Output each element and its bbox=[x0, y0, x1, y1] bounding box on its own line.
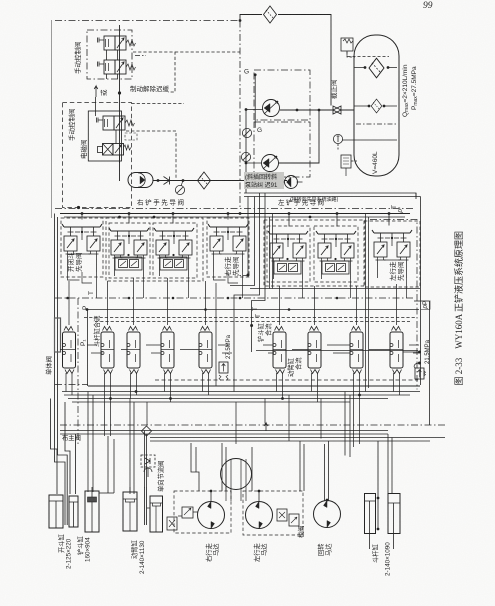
valve V2: manual pilot valve lower bbox=[98, 60, 136, 74]
relief valve RB bbox=[414, 363, 425, 379]
wire: dash-dot border right with corner bbox=[370, 220, 417, 390]
wire: dashed pilot lines to spools bbox=[84, 317, 415, 319]
wire: pump2 suction riser bbox=[278, 110, 319, 163]
pump group box 2 bbox=[254, 122, 310, 177]
node: dot bbox=[86, 308, 89, 311]
wire: right feed line through spools bbox=[256, 350, 418, 352]
wire: dashed link from V3 to right bbox=[126, 131, 176, 178]
node: motor feed dots bbox=[210, 490, 329, 502]
pilot pump P3 bbox=[285, 176, 298, 189]
wire: T-collect line right half bbox=[250, 288, 420, 290]
wire: level gauge line bbox=[343, 139, 398, 141]
label (shaded) 补偿回转系统 bbox=[244, 172, 284, 189]
valve V1: manual pilot valve upper bbox=[98, 36, 136, 50]
wire: feeders to 铲斗缸 bbox=[88, 392, 114, 494]
manual/solenoid valve group box inner bbox=[88, 111, 121, 161]
wire: pilot supply bus upper bbox=[60, 213, 410, 215]
wire: feed stubs into spools bbox=[60, 345, 419, 353]
wire: verticals left of C5 bbox=[270, 214, 273, 289]
wire: P corner stub bbox=[414, 300, 430, 302]
filter F3 in-tank upper bbox=[369, 58, 384, 78]
spool valve S6 bbox=[273, 327, 286, 374]
wire: drops from bus to clusters bbox=[82, 214, 389, 227]
wire: S9 to right riser bbox=[403, 351, 420, 353]
wire: vertical dash-dot x=240 bbox=[239, 21, 241, 209]
wire: C4 leg long drop bbox=[215, 283, 217, 386]
filter F1 on pilot line bbox=[198, 172, 211, 189]
boxed reducing pair under C6 bbox=[322, 258, 349, 274]
wire: dashed pilot sense line from V1 bbox=[133, 52, 175, 92]
wire: lower solid buses bbox=[62, 392, 420, 403]
travel motor left 左行走马达 bbox=[246, 502, 273, 529]
boxed reducing pair under C3 bbox=[160, 254, 187, 270]
valve V4: solenoid valve body bbox=[98, 144, 131, 156]
wire: accumulator to filter line bbox=[153, 180, 287, 182]
wire: pilot trunk vertical bbox=[119, 25, 121, 181]
wire: spool top risers bbox=[69, 278, 397, 325]
check-throttle valve 单向节流阀 bbox=[141, 455, 155, 477]
spool valve S7 bbox=[308, 327, 321, 374]
wire: cluster leg extensions to lower bus bbox=[97, 272, 407, 298]
valve V3: manual control valve bbox=[97, 116, 135, 130]
cylinder 铲斗缸 bbox=[85, 487, 114, 532]
outer dashed box (手动控制阀组) bbox=[63, 103, 132, 208]
node: junction dots on pilot line bbox=[157, 179, 160, 182]
wire: pilot supply bus lower bbox=[64, 216, 405, 218]
pilot valve cluster C3 bbox=[153, 223, 197, 278]
wire: V1 to V2 connections bbox=[107, 50, 118, 79]
wire: feeders to 斗杆缸 bbox=[388, 434, 392, 493]
pressure gauge G1 bbox=[181, 181, 183, 187]
boxed reducing pair under C2 bbox=[115, 254, 142, 270]
spool valve S3 bbox=[127, 327, 140, 374]
node: dot on trunk bbox=[118, 91, 121, 94]
wire: solid return bus y=309.5 bbox=[87, 309, 419, 311]
wire: top line to suction filter bbox=[240, 15, 262, 21]
wire: left edge double vertical bbox=[55, 214, 68, 488]
node: dots below pilot clusters bbox=[66, 297, 338, 311]
pilot valve cluster C2 bbox=[109, 223, 150, 278]
pump group box 1 bbox=[254, 70, 310, 120]
pilot valve cluster C7 (左行走先导阀) bbox=[364, 221, 420, 287]
filter F2 top suction bbox=[264, 6, 277, 23]
shuttle valve block right 梭阀 bbox=[277, 509, 299, 526]
wire: dash-dot elbow to C4 bbox=[237, 275, 248, 277]
filter F4 in-tank lower bbox=[371, 99, 382, 113]
wire: right side verticals bbox=[421, 197, 430, 426]
wire: pump suction header bbox=[280, 109, 354, 111]
gauge G2 bbox=[242, 128, 251, 137]
boxed reducing pair under C5 bbox=[274, 258, 301, 274]
spool valve S2 bbox=[101, 327, 114, 374]
wire: pilot line into V3 bbox=[95, 97, 97, 116]
wire: verticals between C6 and C7 bbox=[366, 214, 369, 392]
wire: return line through filter F3 bbox=[354, 67, 397, 69]
cylinder group 动臂缸 bbox=[123, 487, 163, 532]
wire: left staircase feeders to 开斗缸 bbox=[51, 399, 76, 495]
wire: hooks below clusters C1 C4 bbox=[68, 272, 239, 283]
node: elbow dots bbox=[247, 274, 254, 328]
swing motor 回转马达 bbox=[314, 501, 341, 528]
wire: long transfer lines bbox=[60, 431, 445, 442]
hydraulic tank (V=460L) bbox=[354, 35, 399, 176]
wire: bottom header double line bbox=[244, 193, 421, 197]
spool valve S4 bbox=[161, 327, 174, 374]
wire: pilot header dash-dot bbox=[55, 208, 413, 210]
pilot valve group box A (right shovel) bbox=[106, 218, 203, 281]
pilot valve cluster C1 (开闭斗先导阀) bbox=[61, 218, 103, 277]
valve 单体阀 bbox=[55, 318, 61, 352]
wire: feeders to 左行走马达 and 回转马达 bbox=[252, 392, 350, 502]
wire: long dashed line under labels bbox=[132, 103, 185, 105]
shuttle valve block left bbox=[167, 507, 198, 530]
wire: dashed return y=380 bbox=[155, 379, 418, 381]
wire: dash-dot bus y=425 bbox=[60, 424, 445, 426]
gauge G3 bbox=[241, 152, 250, 161]
accumulator ACC bbox=[128, 173, 153, 188]
wire: inter-bus drops bbox=[147, 395, 321, 444]
node: feeder dots 斗杆缸 bbox=[377, 497, 380, 500]
wire: dash-dot bus y=384.5 bbox=[55, 384, 88, 386]
node: dots right feed bbox=[418, 351, 421, 354]
swing joint circle bbox=[221, 459, 252, 490]
cylinder group 开斗缸 bbox=[49, 487, 78, 528]
wire: G riser between pump boxes bbox=[254, 75, 256, 128]
pilot valve cluster C6 bbox=[314, 226, 358, 282]
pump P1 (variable) bbox=[263, 100, 280, 117]
spool valve S9 bbox=[390, 327, 403, 374]
wire: V3/V4 links bbox=[116, 130, 120, 163]
cylinder group 斗杆缸 bbox=[365, 441, 401, 549]
wire: dash-dot bus y=298 bbox=[55, 297, 414, 299]
scan noise overlay bbox=[0, 0, 1, 1]
spool valve S8 bbox=[350, 327, 363, 374]
wire: top boundary dash-dot line bbox=[55, 20, 240, 22]
wire: spool bottom drops bbox=[66, 373, 400, 447]
wire: oil level dash-dot bbox=[356, 123, 397, 125]
wire: dash-dot vertical x=78 bbox=[77, 298, 79, 445]
shut-off valve (截止阀) bbox=[333, 106, 341, 114]
spool valve S1 bbox=[63, 327, 76, 374]
node: bus dots lower bbox=[109, 390, 361, 400]
check valve arrow mid bbox=[264, 423, 268, 431]
wire: suction line through strainer F4 bbox=[354, 105, 397, 107]
air breather on tank bbox=[341, 38, 355, 57]
node: suction junctions bbox=[296, 109, 299, 112]
wire: breather dashed line into tank bbox=[347, 52, 389, 57]
thermometer/level unit on tank bbox=[341, 147, 357, 176]
wire: filter to stand pipe bbox=[278, 15, 331, 106]
wire: left book edge line bbox=[51, 20, 53, 218]
check valve on pilot line bbox=[164, 177, 170, 185]
dashed box motor left bbox=[243, 491, 303, 535]
wire: feeders to 动臂缸 bbox=[130, 399, 147, 495]
wire: pump pressure verticals down with elbows bbox=[88, 193, 266, 392]
wire: feeders to 右行走马达 bbox=[191, 443, 226, 501]
travel motor right 右行走马达 bbox=[198, 502, 225, 529]
wire: pump outlet lines to common trunk bbox=[246, 110, 263, 194]
spool valve S5 bbox=[199, 327, 212, 374]
pilot valve group box B (left shovel) bbox=[264, 220, 365, 286]
wire: pilot pump connections bbox=[284, 181, 303, 183]
dashed box motor right bbox=[174, 491, 231, 533]
pilot valve cluster C4 (右行走先导阀) bbox=[207, 218, 249, 277]
manual control valve group box (手动控制阀) bbox=[87, 30, 132, 79]
wire: lines through swing joint bbox=[226, 459, 246, 501]
node: bus junction dots bbox=[81, 212, 391, 218]
level gauge circle bbox=[333, 134, 342, 150]
node: junction at top line bbox=[239, 19, 242, 22]
pilot valve cluster C5 bbox=[267, 226, 310, 282]
small diamond on line bbox=[142, 426, 152, 436]
arrow: up arrow near 或 bbox=[94, 86, 98, 97]
wire: dashed link top area bbox=[175, 51, 240, 53]
relief valve RA bbox=[219, 362, 228, 380]
pump P2 (variable) bbox=[262, 155, 279, 172]
